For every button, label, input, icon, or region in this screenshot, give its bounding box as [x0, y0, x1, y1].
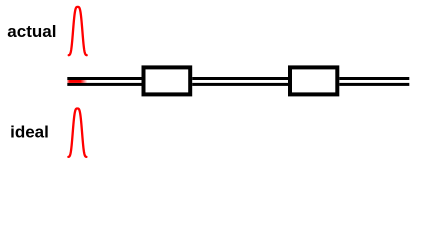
svg-text:ideal: ideal: [10, 122, 49, 141]
svg-text:actual: actual: [7, 22, 56, 41]
